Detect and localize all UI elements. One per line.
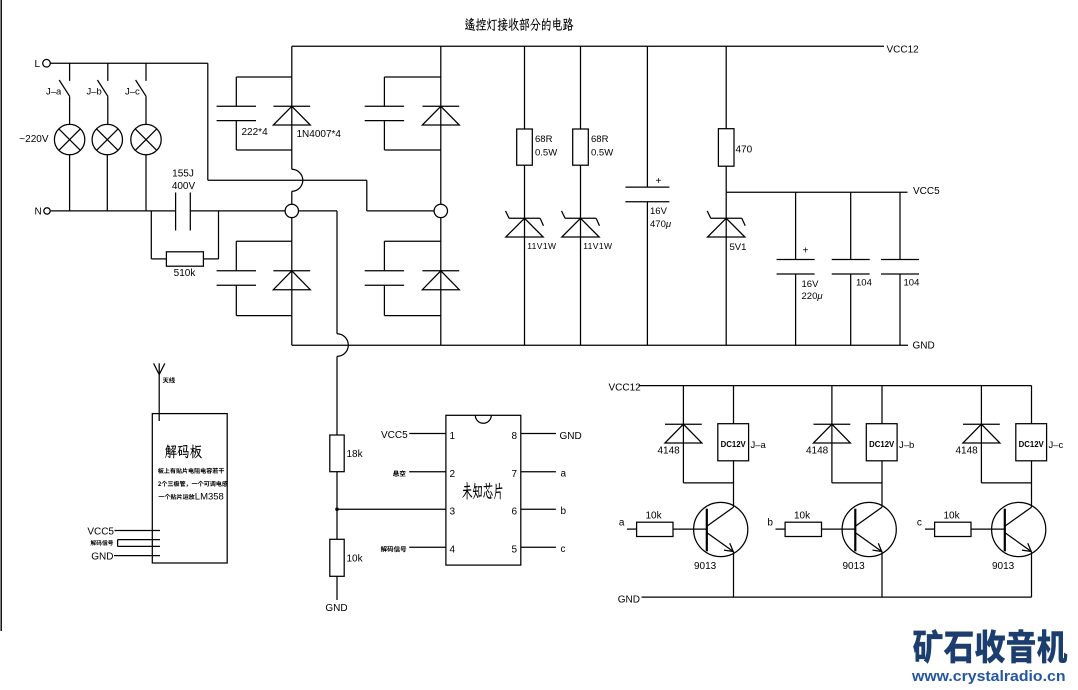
svg-text:155J: 155J (172, 169, 194, 180)
svg-text:470μ: 470μ (650, 219, 672, 230)
wire base a (673, 528, 707, 530)
capacitor 222*4 (LL) (217, 271, 256, 285)
svg-text:J–b: J–b (899, 440, 914, 451)
transistor Q-b 9013 (842, 502, 896, 556)
svg-text:220μ: 220μ (802, 291, 824, 302)
wire junction B through D4 to GND (440, 218, 442, 346)
wire pin6 (521, 508, 556, 510)
wire pin5 (521, 546, 556, 548)
decoder board box 解码板 (152, 414, 227, 563)
wire relay J-b to collector (881, 461, 883, 507)
wire VCC5 into board (115, 530, 161, 532)
transistor Q-c 9013 (992, 502, 1046, 556)
wire VCC12 to D2 and junction B (440, 46, 442, 204)
svg-text:10k: 10k (794, 510, 811, 521)
wire VCC5 to C104a (850, 192, 852, 259)
terminal N (44, 208, 50, 214)
wire input c (925, 528, 935, 530)
wire tap to pin3 (337, 508, 446, 510)
capacitor 16V 470u plates (625, 187, 669, 202)
net VCC5 rail (726, 191, 907, 193)
wire R68-2 through zener to GND (580, 165, 582, 345)
svg-text:J–b: J–b (87, 87, 102, 98)
svg-text:GND: GND (913, 341, 935, 352)
svg-text:4148: 4148 (658, 446, 681, 457)
wire lamp2 to N (106, 155, 108, 211)
svg-text:b: b (767, 518, 773, 529)
svg-text:2: 2 (450, 469, 456, 480)
svg-text:DC12V: DC12V (721, 440, 747, 449)
resistor 10k base (b) (785, 522, 821, 536)
svg-text:1N4007*4: 1N4007*4 (297, 129, 342, 140)
diode D1 1N4007 (UL) (273, 106, 310, 125)
svg-text:a: a (619, 518, 625, 529)
svg-text:11V1W: 11V1W (583, 241, 612, 251)
svg-text:VCC12: VCC12 (887, 45, 920, 56)
op-amp U1 body 未知芯片 (446, 415, 521, 565)
capacitor 104 #2 plates (881, 260, 919, 275)
wire base b (822, 528, 856, 530)
wire UM cap stub top (383, 77, 385, 106)
svg-text:0.5W: 0.5W (591, 148, 613, 159)
wire hop over GND rail (337, 334, 348, 357)
svg-text:104: 104 (856, 277, 872, 288)
svg-text:www.crystalradio.cn: www.crystalradio.cn (911, 669, 1066, 685)
wire Ja to lamp1 (69, 96, 71, 124)
wire VCC12 to C470u (646, 46, 648, 187)
svg-text:4148: 4148 (956, 446, 979, 457)
wire UM cap stub bottom (383, 121, 385, 150)
relay coil J-a DC12V (718, 424, 749, 461)
svg-text:104: 104 (904, 277, 920, 288)
label 解码板 (165, 444, 202, 458)
wire L rail (50, 62, 208, 64)
wire pin2 (409, 471, 446, 473)
svg-text:400V: 400V (172, 181, 196, 192)
svg-text:510k: 510k (174, 268, 197, 279)
svg-text:470: 470 (736, 144, 753, 155)
lamp L2 (92, 124, 122, 154)
title text 遥控灯接收部分的电路 (465, 18, 574, 32)
resistor 18k (330, 435, 344, 472)
wire VCC12 to relay J-a (733, 386, 735, 424)
svg-text:J–c: J–c (125, 87, 140, 98)
wire relay J-a to collector (733, 461, 735, 507)
svg-text:+: + (803, 246, 809, 257)
wire VCC12 to relay J-b (881, 386, 883, 424)
zener diode 5V1 (707, 211, 745, 237)
wire GND into board (114, 555, 160, 557)
label 解码信号 board (91, 540, 114, 545)
wire C104a to GND (850, 274, 852, 345)
wire emitter-a to GND (733, 551, 735, 597)
wire hop to 18k (336, 356, 338, 435)
svg-text:8: 8 (511, 431, 517, 442)
resistor 68R #1 (517, 129, 533, 165)
svg-text:1: 1 (450, 431, 456, 442)
wire junction A through D3 to GND (291, 218, 293, 346)
wire 510k branch right (203, 211, 218, 259)
wire LM cap stub bottom (383, 285, 385, 315)
wire VCC12 to R68-1 (524, 46, 526, 129)
svg-text:68R: 68R (535, 134, 553, 145)
wire VCC5 to C220u (795, 192, 797, 259)
net VCC12 rail (292, 45, 884, 47)
net GND rail mid (292, 344, 908, 346)
wire LL cap stub top (235, 241, 237, 271)
zener diode 11V1W #1 (506, 211, 544, 237)
wire lamp1 to N (69, 155, 71, 211)
wire UL cap stub bottom (235, 121, 237, 150)
watermark logo 矿石收音机 (913, 629, 1067, 664)
wire UM pair bottom (384, 149, 440, 151)
svg-text:DC12V: DC12V (1019, 440, 1045, 449)
wire L down to N level (366, 180, 368, 211)
svg-text:7: 7 (511, 469, 517, 480)
wire pin7 (521, 471, 556, 473)
svg-text:VCC5: VCC5 (87, 527, 114, 538)
diode 4148 (b) (813, 424, 850, 443)
wire 18k to 10k (336, 472, 338, 540)
svg-text:4148: 4148 (806, 446, 829, 457)
diode D2 1N4007 (UM) (422, 106, 459, 125)
wire R68-1 through zener to GND (524, 165, 526, 345)
wire C104b to GND (899, 274, 901, 345)
wire D4148-a to relay (683, 482, 733, 484)
wire 10k to GND stub (336, 576, 338, 600)
junction node A (285, 204, 298, 217)
wire VCC5 to C104b (899, 192, 901, 259)
svg-text:68R: 68R (591, 134, 609, 145)
resistor 68R #2 (573, 129, 589, 165)
wire VCC12 through D4148-b (831, 386, 833, 483)
wire VCC12 through D4148-a (682, 386, 684, 483)
svg-text:c: c (917, 518, 922, 529)
wire C220u to GND (795, 274, 797, 345)
wire hop over L wire (292, 169, 303, 191)
svg-text:0.5W: 0.5W (535, 148, 557, 159)
resistor 10k base (c) (935, 522, 971, 536)
svg-text:222*4: 222*4 (242, 127, 269, 138)
svg-text:18k: 18k (347, 449, 364, 460)
wire L horizontal (208, 179, 367, 181)
svg-text:b: b (561, 506, 567, 517)
svg-text:GND: GND (618, 595, 640, 606)
junction dot pin3 tap (335, 508, 339, 512)
wire junction A to decoder drop (299, 211, 338, 334)
capacitor 222*4 (UL) (217, 106, 256, 120)
switch J-c blade (136, 80, 146, 96)
svg-text:L: L (35, 59, 41, 70)
wire input b (776, 528, 786, 530)
wire N rail 2 (191, 210, 285, 212)
wire LM pair bottom (384, 315, 440, 317)
wire switch stub Ja (69, 63, 71, 81)
label 未知芯片 (462, 482, 502, 500)
label 悬空 pin2 (393, 470, 406, 476)
svg-text:GND: GND (560, 431, 582, 442)
wire UL pair top (236, 76, 291, 78)
svg-text:4: 4 (450, 545, 456, 556)
wire N rail (51, 210, 176, 212)
terminal L (43, 59, 51, 67)
svg-text:5: 5 (511, 545, 517, 556)
wire relay J-c to collector (1031, 461, 1033, 507)
wire hop to junction A (291, 191, 293, 204)
svg-text:LM358: LM358 (195, 491, 224, 502)
svg-text:6: 6 (511, 507, 517, 518)
wire base c (971, 528, 1005, 530)
svg-text:3: 3 (450, 507, 456, 518)
svg-text:J–a: J–a (751, 440, 767, 451)
wire VCC12 to D1 (291, 46, 293, 169)
svg-text:16V: 16V (802, 279, 820, 290)
relay coil J-c DC12V (1016, 424, 1047, 461)
svg-text:10k: 10k (646, 510, 663, 521)
wire emitter-c to GND (1031, 551, 1033, 597)
wire LL pair top (236, 240, 291, 242)
wire to junction B (367, 210, 434, 212)
svg-text:GND: GND (325, 603, 347, 614)
wire VCC12 to R68-2 (580, 46, 582, 129)
transistor Q-a 9013 (694, 502, 748, 556)
svg-text:GND: GND (91, 552, 113, 563)
svg-text:a: a (561, 469, 567, 480)
wire VCC12 to R470 (725, 46, 727, 129)
wire 510k branch left (151, 211, 166, 259)
svg-text:VCC5: VCC5 (381, 430, 408, 441)
capacitor 155J plates (176, 193, 191, 231)
svg-text:J–a: J–a (46, 87, 62, 98)
wire C470u to GND (646, 202, 648, 346)
wire Jc to lamp3 (145, 96, 147, 124)
wire input a (627, 528, 637, 530)
wire Jb to lamp2 (107, 96, 109, 124)
svg-text:+: + (656, 176, 662, 187)
wire LM cap stub top (383, 241, 385, 271)
svg-text:10k: 10k (944, 510, 961, 521)
resistor 10k base (a) (637, 522, 673, 536)
board note line3 CJK (159, 494, 195, 500)
diode D3 1N4007 (LL) (273, 271, 310, 290)
svg-text:10k: 10k (347, 554, 364, 565)
svg-text:~220V: ~220V (19, 134, 49, 145)
capacitor 16V 220u plates (777, 260, 815, 275)
wire UM pair top (384, 76, 440, 78)
wire LM pair top (384, 240, 440, 242)
svg-text:VCC5: VCC5 (913, 186, 940, 197)
svg-text:9013: 9013 (992, 561, 1015, 572)
zener diode 11V1W #2 (562, 211, 600, 237)
svg-text:VCC12: VCC12 (609, 382, 642, 393)
net VCC12 relay rail (639, 385, 1032, 387)
wire D4148-b to relay (832, 482, 882, 484)
capacitor 104 #1 plates (832, 260, 870, 275)
wire lamp3 to N (145, 155, 147, 211)
label 解码信号 pin4 (381, 546, 407, 552)
svg-text:9013: 9013 (843, 561, 866, 572)
label 天线 (163, 377, 175, 383)
junction node B (434, 204, 447, 217)
wire emitter-b to GND (881, 551, 883, 597)
diode 4148 (c) (963, 424, 1000, 443)
capacitor 222*4 (LM) (365, 271, 404, 285)
wire VCC12 to relay J-c (1031, 386, 1033, 424)
svg-text:N: N (35, 206, 42, 217)
svg-text:11V1W: 11V1W (527, 241, 556, 251)
capacitor 222*4 (UM) (365, 106, 404, 120)
svg-text:9013: 9013 (694, 561, 717, 572)
svg-text:J–c: J–c (1049, 440, 1064, 451)
lamp L1 (54, 124, 84, 154)
resistor 510k (166, 252, 203, 266)
wire 解码信号 bracket (118, 540, 160, 547)
net GND relay rail (642, 596, 1032, 598)
wire switch stub Jb (107, 63, 109, 81)
wire UL cap stub top (235, 77, 237, 106)
wire switch stub Jc (145, 63, 147, 81)
svg-text:c: c (561, 544, 566, 555)
board note line1 (158, 468, 224, 474)
wire VCC12 through D4148-c (980, 386, 982, 483)
wire R470 through 5V1 to GND (725, 166, 727, 345)
relay coil J-b DC12V (866, 424, 897, 461)
wire LL pair bottom (236, 315, 291, 317)
wire pin1 (409, 433, 446, 435)
diode 4148 (a) (665, 424, 702, 443)
wire LL cap stub bottom (235, 285, 237, 315)
switch J-a blade (59, 80, 69, 96)
svg-text:DC12V: DC12V (869, 440, 895, 449)
svg-text:5V1: 5V1 (730, 242, 747, 253)
resistor 10k divider (330, 539, 344, 576)
board note line2 (158, 481, 228, 487)
wire D4148-c to relay (981, 482, 1031, 484)
lamp L3 (131, 124, 161, 154)
wire pin8 (521, 433, 556, 435)
wire UL pair bottom (236, 149, 291, 151)
diode D4 1N4007 (LM) (422, 271, 459, 290)
antenna (154, 363, 165, 421)
switch J-b blade (97, 80, 107, 96)
svg-text:16V: 16V (650, 206, 668, 217)
border frame left line (0, 0, 2, 631)
resistor 470 (718, 129, 734, 167)
wire L drop (207, 63, 209, 180)
wire pin4 (409, 546, 446, 548)
